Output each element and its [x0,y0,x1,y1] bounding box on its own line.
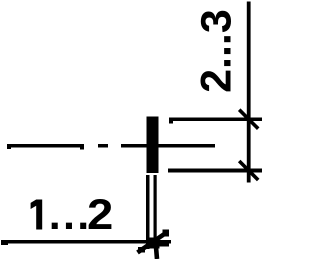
svg-text:2: 2 [87,190,113,239]
svg-text:...: ... [49,191,92,239]
svg-text:2...3: 2...3 [193,9,241,93]
